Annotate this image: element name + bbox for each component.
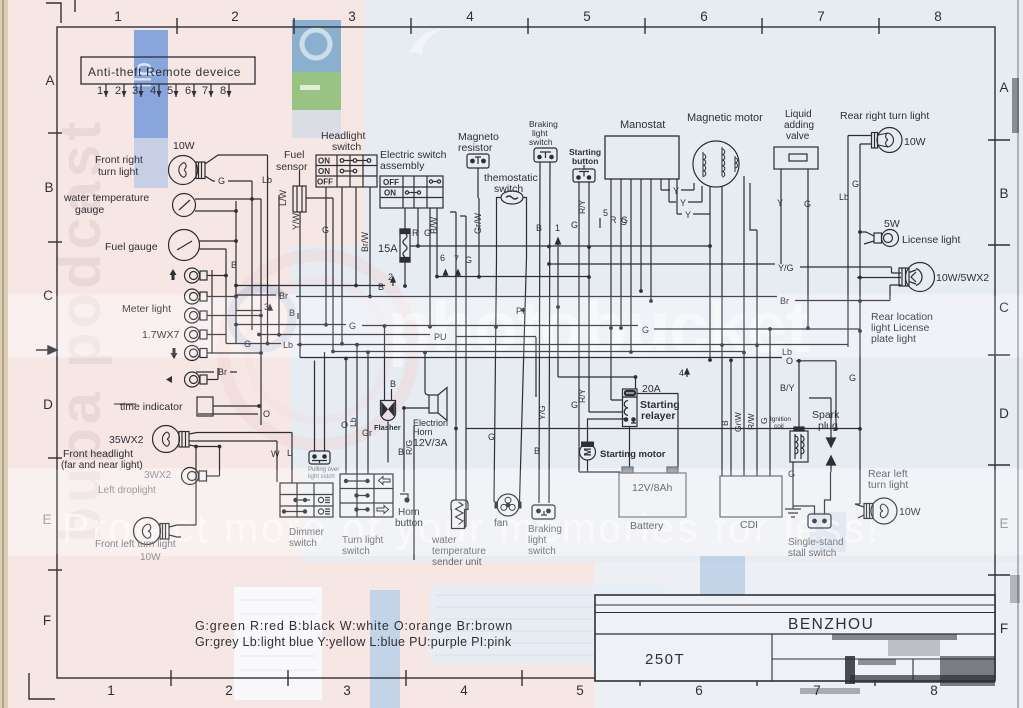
- meter light bulb 5: [185, 346, 262, 361]
- wire sender verticals: [450, 212, 466, 527]
- dimmer switch: [280, 483, 333, 517]
- svg-text:B: B: [720, 420, 730, 426]
- svg-text:G: G: [465, 255, 472, 265]
- svg-text:2: 2: [231, 9, 239, 24]
- front right turn light bulb: [169, 156, 206, 185]
- wire W drop: [276, 441, 278, 482]
- svg-text:M: M: [583, 448, 594, 456]
- bus Br y=296: [236, 285, 901, 301]
- svg-text:Gr: Gr: [362, 428, 372, 438]
- svg-text:Y: Y: [685, 210, 691, 220]
- component names middle: [317, 157, 399, 198]
- svg-text:gauge: gauge: [75, 204, 104, 216]
- svg-text:R/W: R/W: [746, 413, 756, 430]
- svg-text:10W/5WX2: 10W/5WX2: [936, 272, 989, 284]
- svg-text:G: G: [322, 225, 329, 235]
- manostat Y steps to motor: [661, 179, 710, 214]
- wire front-right top prong to x236: [205, 155, 268, 164]
- svg-text:7: 7: [202, 85, 208, 97]
- svg-text:switch: switch: [494, 183, 523, 195]
- electric switch leads down: [418, 208, 430, 327]
- meter arrows: [166, 269, 178, 383]
- svg-text:BENZHOU: BENZHOU: [788, 616, 874, 633]
- svg-text:Lb: Lb: [839, 192, 849, 202]
- svg-text:Starting motor: Starting motor: [600, 449, 666, 460]
- svg-text:Lb: Lb: [348, 417, 358, 427]
- starting relayer body: [623, 397, 638, 427]
- wire horn top G lead: [425, 353, 429, 396]
- spark plug: [809, 398, 836, 472]
- wire rear right light leads: [848, 136, 872, 145]
- wire thermostatic left lead down to fan: [494, 198, 501, 503]
- wire starting button R/Y leg to relay: [589, 182, 623, 412]
- svg-text:G: G: [218, 176, 225, 186]
- bus y377 to relay fuse top: [558, 377, 636, 389]
- svg-text:1: 1: [107, 683, 115, 698]
- svg-text:250T: 250T: [645, 651, 685, 668]
- svg-text:10W: 10W: [904, 136, 926, 148]
- legend: [195, 619, 513, 649]
- watermark photo fragments: [48, 20, 846, 708]
- svg-text:Anti-theft Remote deveice: Anti-theft Remote deveice: [88, 65, 241, 79]
- svg-text:Manostat: Manostat: [620, 119, 665, 131]
- svg-text:Fuel: Fuel: [284, 149, 304, 161]
- magneto resistor: [467, 154, 489, 168]
- svg-text:4: 4: [466, 9, 474, 24]
- fuel sensor body: [293, 170, 306, 212]
- meter light bulb 6: [185, 372, 219, 387]
- svg-text:time indicator: time indicator: [120, 401, 183, 413]
- svg-text:Y: Y: [777, 198, 783, 208]
- starting button: [573, 165, 595, 182]
- svg-text:Y/G: Y/G: [537, 405, 547, 420]
- svg-text:plug: plug: [818, 420, 838, 432]
- svg-text:8: 8: [220, 85, 226, 97]
- liquid adding valve: [774, 147, 818, 169]
- bus y=352: [333, 351, 744, 353]
- wire braking-top left leg B / Y-G long drop: [539, 162, 540, 503]
- wire starting motor to battery minus: [579, 460, 621, 472]
- rear left turn light bulb: [864, 498, 897, 524]
- CDI box: [720, 476, 782, 517]
- wire relay coil bottom to battery: [629, 427, 631, 473]
- vertical trunk x212: [211, 270, 213, 353]
- svg-text:Gr:grey Lb:light blue Y:yell: Gr:grey Lb:light blue Y:yellow L:blue PU…: [195, 635, 512, 649]
- bus O y=360: [300, 358, 836, 430]
- svg-text:(far and near light): (far and near light): [61, 460, 143, 471]
- electric switch assembly box: [380, 176, 443, 208]
- wire bulb6 up Br: [217, 368, 219, 380]
- watermark over ink (slight lightening): [8, 296, 1023, 554]
- svg-text:Fuel gauge: Fuel gauge: [105, 241, 158, 253]
- manostat box: [605, 136, 679, 179]
- svg-text:8: 8: [930, 683, 938, 698]
- bus Lb y=345: [236, 344, 848, 345]
- 20A fuse on relay: [623, 389, 638, 397]
- svg-text:1: 1: [97, 85, 103, 97]
- wire R/G down: [413, 426, 415, 560]
- wire front-right G prong to x252: [205, 176, 252, 181]
- svg-text:Gr\W: Gr\W: [733, 412, 743, 432]
- svg-text:B: B: [390, 379, 396, 389]
- svg-text:6: 6: [695, 683, 703, 698]
- battery: [619, 467, 686, 517]
- svg-text:7: 7: [454, 254, 459, 264]
- mark 3: [268, 305, 272, 311]
- vertical trunk x236: [235, 201, 237, 344]
- svg-text:20A: 20A: [642, 383, 661, 395]
- magnetic motor leads down to CDI: [710, 176, 770, 476]
- svg-text:4: 4: [150, 85, 156, 97]
- svg-text:1: 1: [114, 9, 122, 24]
- svg-text:6: 6: [185, 85, 191, 97]
- bus B-black y=286: [237, 285, 385, 287]
- wire coil top B/Y up to O bus: [798, 361, 800, 427]
- svg-text:A: A: [999, 80, 1008, 95]
- wire valve Y lead: [780, 169, 782, 264]
- svg-text:turn light: turn light: [98, 166, 138, 178]
- svg-text:G: G: [424, 228, 431, 238]
- right page edge: [1017, 0, 1019, 708]
- vertical trunk x267.5: [267, 155, 269, 344]
- braking light switch (top): [534, 148, 557, 162]
- svg-text:35WX2: 35WX2: [109, 434, 144, 446]
- bottom ruler ticks: [171, 670, 875, 686]
- svg-text:Front right: Front right: [95, 154, 143, 166]
- bus G y=326: [236, 325, 860, 330]
- centre arrow left: [36, 346, 57, 354]
- svg-text:6: 6: [700, 9, 708, 24]
- time indicator box: [114, 397, 213, 416]
- headlight switch box: [316, 155, 377, 187]
- svg-text:O: O: [786, 356, 793, 366]
- svg-text:Front headlight: Front headlight: [63, 448, 133, 460]
- left ticks: [48, 133, 62, 570]
- wire flasher bottom: [387, 422, 389, 463]
- wire starting button G leg long drop: [578, 182, 580, 472]
- svg-text:Horn: Horn: [413, 427, 433, 437]
- top ruler ticks: [177, 18, 879, 34]
- svg-text:8: 8: [934, 9, 942, 24]
- svg-text:adding: adding: [784, 120, 814, 131]
- single-stand stall switch: [793, 472, 831, 528]
- ground symbol: [785, 509, 801, 517]
- svg-text:3: 3: [132, 85, 138, 97]
- wire 1-mark x558: [557, 247, 559, 377]
- svg-text:3: 3: [348, 9, 356, 24]
- scan smudges bottom right: [800, 78, 1020, 694]
- crop mark top-left: [46, 3, 61, 23]
- braking light switch (bottom): [532, 505, 555, 519]
- svg-text:switch: switch: [529, 137, 553, 147]
- thermostatic switch: [501, 191, 523, 204]
- svg-text:5: 5: [576, 683, 584, 698]
- svg-text:4: 4: [460, 683, 468, 698]
- bus B y=264: [549, 264, 901, 273]
- svg-text:G:green R:red B:black W:whi: G:green R:red B:black W:white O:orange B…: [195, 619, 513, 633]
- bus y=429: [466, 428, 860, 430]
- svg-text:Y: Y: [673, 186, 679, 196]
- svg-text:resistor: resistor: [458, 142, 493, 154]
- svg-text:G: G: [849, 373, 856, 383]
- main right vertical x857 rear-right to rear-left: [859, 144, 861, 504]
- wire headlight top lead to L drop: [189, 433, 292, 435]
- svg-text:5W: 5W: [884, 218, 900, 230]
- svg-text:15A: 15A: [378, 243, 398, 255]
- bus C y=277 hooks 6 7: [437, 271, 589, 277]
- fuel gauge: [169, 230, 200, 261]
- right ticks: [988, 140, 1010, 575]
- wire turn switch feeds O Lb Gr: [346, 345, 368, 474]
- wire x333 down to bus352: [332, 198, 334, 352]
- fan: [495, 494, 522, 516]
- svg-text:G: G: [571, 220, 578, 230]
- vertical trunk x252: [251, 181, 253, 330]
- wire fuel sensor right lead to x333: [306, 197, 333, 199]
- svg-text:F: F: [43, 613, 51, 628]
- svg-text:assembly: assembly: [380, 160, 425, 172]
- svg-text:4: 4: [679, 368, 684, 378]
- wire flasher top right B: [391, 389, 393, 400]
- meter light bulb 2: [185, 289, 237, 304]
- svg-text:Ignition: Ignition: [770, 416, 791, 423]
- svg-text:ON: ON: [318, 167, 330, 176]
- front headlight bulb 35WX2: [153, 426, 190, 453]
- wire relay fuse to battery plus: [637, 394, 678, 468]
- svg-text:ON: ON: [318, 157, 330, 166]
- svg-text:B: B: [231, 260, 237, 270]
- turn light switch: [340, 474, 393, 517]
- svg-text:Lb: Lb: [262, 175, 272, 185]
- wire horn left lead: [404, 407, 429, 409]
- component names bottom: [289, 527, 325, 549]
- white watermark band + big text (under ink): [8, 288, 1023, 556]
- svg-text:switch: switch: [332, 141, 361, 153]
- wire L/W x279: [278, 195, 280, 336]
- wire tail light leads: [857, 277, 901, 279]
- anti-theft pins 1-8: [104, 84, 232, 97]
- wire coil bottom to ground: [792, 462, 794, 509]
- svg-text:6: 6: [440, 253, 445, 263]
- rear location tail light bulb: [899, 263, 935, 292]
- svg-text:R: R: [412, 228, 419, 238]
- svg-text:R/Y: R/Y: [577, 200, 587, 215]
- svg-text:5: 5: [583, 9, 591, 24]
- svg-text:5: 5: [167, 85, 173, 97]
- svg-text:B: B: [534, 446, 540, 456]
- svg-text:B/Y: B/Y: [780, 383, 795, 393]
- bus Br stub y=372: [196, 371, 237, 373]
- left droplight bulb 3WX2: [182, 468, 220, 485]
- svg-text:D: D: [43, 397, 53, 412]
- svg-text:valve: valve: [786, 131, 810, 142]
- wire front-left leads: [169, 525, 196, 537]
- meter light bulb 3: [185, 308, 262, 323]
- svg-text:2: 2: [225, 683, 233, 698]
- svg-text:Gr/W: Gr/W: [473, 213, 483, 234]
- wire magneto resistor down Gr/W: [478, 168, 479, 277]
- wire fuel gauge leads: [199, 241, 236, 249]
- wire headlight mid lead to W drop: [189, 440, 277, 442]
- svg-text:sender unit: sender unit: [432, 557, 482, 568]
- bus PU y=336: [259, 335, 536, 398]
- fuse 15A: [400, 208, 410, 287]
- svg-text:5: 5: [603, 208, 608, 218]
- rear right turn light bulb: [872, 128, 903, 153]
- mark 4: [685, 369, 689, 377]
- svg-text:Y/G: Y/G: [778, 263, 794, 273]
- svg-text:F: F: [1000, 621, 1008, 636]
- wire braking-top right leg drop: [549, 162, 550, 503]
- svg-text:Y: Y: [680, 198, 686, 208]
- bus A y=247: [410, 245, 710, 247]
- svg-text:W: W: [271, 449, 280, 459]
- wire fuel sensor Y/W down x300: [299, 212, 301, 358]
- wire L drop: [291, 433, 293, 484]
- starting motor: [580, 442, 596, 461]
- svg-text:Br/W: Br/W: [360, 231, 370, 252]
- svg-text:B: B: [999, 186, 1008, 201]
- svg-text:ON: ON: [384, 189, 396, 198]
- svg-text:Y/W: Y/W: [291, 212, 301, 230]
- svg-text:License light: License light: [902, 234, 960, 246]
- wire headlight low lead: [189, 445, 221, 447]
- svg-text:relayer: relayer: [641, 410, 675, 422]
- svg-text:button: button: [572, 156, 598, 166]
- svg-text:Magnetic motor: Magnetic motor: [687, 112, 763, 124]
- wire B/W x437: [436, 208, 438, 277]
- mark 5 hook: [599, 218, 601, 228]
- wire horn B down to button: [403, 408, 405, 492]
- svg-text:water temperature: water temperature: [63, 192, 149, 204]
- license light bulb 5W: [874, 230, 899, 247]
- wire labels left: [218, 175, 628, 459]
- svg-text:1: 1: [555, 223, 560, 233]
- wire time indicator right: [213, 405, 259, 407]
- electrion horn speaker: [429, 388, 447, 421]
- front left turn light bulb: [134, 518, 170, 545]
- svg-text:Br: Br: [218, 367, 227, 377]
- vertical trunk x226: [226, 249, 237, 344]
- meter light bulb 1: [185, 268, 227, 283]
- svg-text:3: 3: [343, 683, 351, 698]
- junction dots: [194, 197, 862, 448]
- flasher: [381, 401, 396, 421]
- bus stub y=311: [236, 311, 298, 320]
- wire front-left vertical up: [195, 447, 197, 526]
- svg-text:2: 2: [388, 272, 393, 282]
- svg-text:G: G: [620, 217, 627, 227]
- svg-text:Flasher: Flasher: [374, 423, 401, 432]
- ignition coil: [790, 427, 808, 462]
- pulling over light switch: [309, 352, 330, 464]
- wire rear left light leads: [855, 504, 864, 518]
- wire thermostatic right lead down to fan (PI): [520, 198, 527, 503]
- wire Lb vertical right: [847, 136, 849, 348]
- horn button: [400, 494, 409, 502]
- bus O stub y=414: [198, 413, 258, 415]
- svg-text:B: B: [536, 223, 542, 233]
- wire rear left light up to O bus: [855, 503, 860, 505]
- crop mark bottom-left: [29, 673, 55, 699]
- CDI lead labels: [720, 412, 769, 432]
- svg-text:L/W: L/W: [278, 189, 288, 206]
- wire flasher top left from G bus: [384, 326, 386, 400]
- wire water gauge leads: [195, 199, 261, 211]
- manostat pins down: [611, 179, 651, 400]
- svg-text:coil: coil: [774, 423, 784, 430]
- wire valve G lead: [807, 169, 809, 328]
- water temperature gauge: [173, 194, 196, 217]
- svg-text:R/Y: R/Y: [577, 389, 587, 404]
- svg-text:O: O: [263, 409, 270, 419]
- svg-text:Rear right turn light: Rear right turn light: [840, 110, 929, 122]
- svg-text:D: D: [999, 406, 1009, 421]
- svg-text:G: G: [488, 432, 495, 442]
- magnetic motor: [693, 141, 739, 187]
- svg-text:12V/3A: 12V/3A: [413, 437, 447, 449]
- wire relay terminal to starting motor: [588, 419, 625, 444]
- svg-text:B: B: [378, 282, 384, 292]
- wire droplight vertical up: [219, 447, 221, 477]
- mark 2: [392, 277, 394, 286]
- svg-text:OFF: OFF: [383, 178, 399, 187]
- svg-text:7: 7: [817, 9, 825, 24]
- svg-text:Liquid: Liquid: [785, 109, 812, 120]
- svg-text:G: G: [804, 199, 811, 209]
- anti-theft remote device box: [81, 57, 255, 84]
- mark 1 arrow: [557, 241, 559, 246]
- svg-text:B: B: [44, 180, 53, 195]
- svg-text:OFF: OFF: [317, 178, 333, 187]
- svg-text:G: G: [852, 179, 859, 189]
- svg-text:R: R: [610, 215, 617, 225]
- svg-text:2: 2: [115, 85, 121, 97]
- wire license light left to Lb: [860, 232, 874, 244]
- water temperature sender unit: [451, 500, 468, 529]
- svg-text:A: A: [45, 73, 54, 88]
- svg-text:L: L: [287, 448, 292, 458]
- headlight switch leads down: [326, 187, 370, 344]
- svg-text:O: O: [341, 420, 348, 430]
- vertical trunk x261: [260, 199, 262, 425]
- svg-text:sensor: sensor: [276, 161, 308, 173]
- svg-text:G: G: [759, 417, 769, 424]
- svg-text:10W: 10W: [173, 140, 195, 152]
- meter light bulb 4: [185, 327, 227, 342]
